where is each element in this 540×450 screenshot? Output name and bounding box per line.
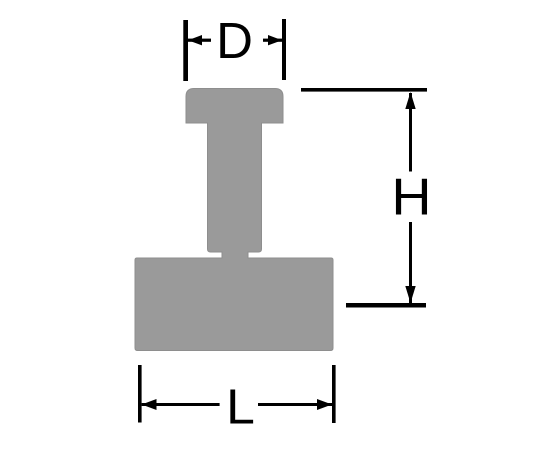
dimension L: left extension tick xyxy=(138,365,142,423)
dimension D: right arrowhead xyxy=(268,35,282,45)
dimension D: right extension tick xyxy=(282,19,286,80)
dimension H: top extension tick xyxy=(301,88,427,92)
dimension H: down arrowhead xyxy=(405,286,415,303)
dimension D: left arrow tail xyxy=(188,39,211,42)
dimension L: left arrow tail xyxy=(142,403,220,406)
svg-text:H: H xyxy=(391,168,431,226)
dimension D: left arrowhead xyxy=(188,35,202,45)
dimension H: bottom extension tick xyxy=(346,303,426,308)
dimension H: upper dimension line xyxy=(409,93,412,172)
dimension L: right arrowhead xyxy=(317,399,332,410)
dimension D: right arrow tail xyxy=(263,39,282,42)
dimension L: left arrowhead xyxy=(142,399,157,410)
svg-text:D: D xyxy=(216,12,253,69)
dimension H: lower dimension line xyxy=(409,222,412,303)
magnet body (cap, stem, neck, base) xyxy=(135,89,333,351)
svg-text:L: L xyxy=(226,379,255,435)
dimension L: right arrow tail xyxy=(258,403,332,406)
dimension D: left extension tick xyxy=(183,20,188,81)
dimension L: right extension tick xyxy=(332,365,336,423)
dimension H: up arrowhead xyxy=(405,92,415,109)
